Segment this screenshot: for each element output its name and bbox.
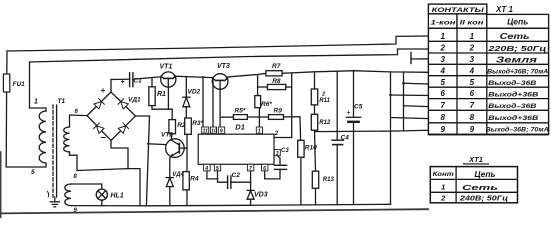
svg-text:R13: R13 [323,177,335,183]
wire bridge plus output up to C1 rail [110,80,112,93]
ground (screen of T1) [50,197,59,207]
resistor R3 [185,118,192,134]
wire pin 7 column [250,171,252,190]
wire rail to C5 [353,71,355,118]
svg-text:4: 4 [439,66,445,75]
wire R1 bottom to base node [152,106,172,110]
connector table XT1 (two-column contact table) [428,4,548,134]
wire pin 8 horizontal run [77,169,128,171]
svg-text:3: 3 [440,55,445,64]
svg-text:FU1: FU1 [13,81,26,88]
wire R7/R8 left vertical [257,75,259,96]
svg-text:Конт: Конт [433,172,455,178]
table subheader cells [428,14,457,28]
wire pin 5 lead to C2 [218,171,228,182]
resistor R2 [169,120,176,134]
wire R5/R9 row left end (tee on VT3 base column) [220,116,233,118]
svg-text:R6*: R6* [261,101,272,108]
wire IC pin 2 lead [274,137,292,139]
bridge diode (top-left arm) [94,99,104,109]
labels group [13,63,363,214]
svg-text:Цепь: Цепь [474,169,495,179]
wire C2 to pin 7 column [231,181,251,183]
svg-text:C3: C3 [281,148,289,154]
pin 9 box [218,127,224,134]
resistor R1 [149,87,155,106]
table data grid [428,28,548,134]
svg-text:2: 2 [469,44,475,53]
wire R9 to R10 top [284,117,301,141]
bridge diode (top-right arm) [118,99,128,109]
wire rail to C4 [336,71,338,140]
svg-text:R7: R7 [272,63,281,70]
svg-text:R1: R1 [157,91,166,98]
wire VT2 emitter down to VD4 [170,156,172,178]
capacitor C5 (electrolytic) [346,117,360,122]
wire R7/R8 right vertical down to IC pin 2 [291,73,293,138]
svg-text:3: 3 [470,55,475,64]
resistor R4 [183,172,189,190]
fuse FU1 [3,74,9,92]
svg-text:C4: C4 [341,135,350,142]
svg-text:Выход+36В: Выход+36В [488,114,538,122]
node junction on bus row 6 [389,94,392,97]
wire R1 top to rail [151,78,153,86]
svg-text:VT3: VT3 [217,63,230,70]
wire stub toward VT2 [148,143,167,146]
svg-text:5: 5 [440,78,445,87]
wire R10 bottom to rail [300,157,302,205]
wire line2 drop to T1 pin 1 [30,62,47,111]
pin 1 box [256,127,262,134]
wire pin 4 lead [207,171,218,179]
svg-text:VД4: VД4 [172,172,184,178]
svg-text:КОНТАКТЫ: КОНТАКТЫ [432,7,484,14]
pin 11 box [202,127,209,134]
svg-text:T1: T1 [58,98,66,105]
wire R13 bottom to rail [315,188,317,204]
svg-text:2: 2 [440,194,446,203]
wire R4 bottom to rail [186,190,188,206]
wire pin 6 lead to C3 [265,169,280,179]
pin 6 box [262,164,268,171]
wire T1 pin 6 to bridge left vertex [70,115,88,127]
wire rail to R11 [314,72,316,89]
svg-text:R5*: R5* [235,108,246,115]
wire R11 to R12 [314,105,316,114]
transformer T1 secondary winding I (pins 6-8) [64,127,70,152]
capacitor C2 [228,176,231,188]
lamp HL1 [96,189,107,200]
svg-text:240В; 50Гц: 240В; 50Гц [459,195,509,202]
svg-text:Выход–36В: Выход–36В [488,102,536,110]
capacitor C3 [274,165,286,169]
svg-text:D1: D1 [235,123,245,132]
svg-text:220В; 50Гц: 220В; 50Гц [487,44,547,53]
svg-text:II кон: II кон [460,20,485,26]
transistor VT1 [161,72,176,87]
resistor R7 (in series on rail) [266,71,282,76]
svg-text:5: 5 [216,166,219,172]
wire output bus vertical (rows 6,8) [390,72,392,204]
svg-text:1: 1 [34,99,38,106]
svg-text:Сеть: Сеть [500,31,530,41]
svg-text:9: 9 [220,128,223,134]
svg-text:1-кон: 1-кон [431,21,457,27]
bridge diode (bottom-left arm) [94,123,104,133]
node junction on comb row 5 [402,82,405,85]
svg-text:VD3: VD3 [254,191,268,198]
wire fuse-to-pin5 segment [6,92,46,167]
svg-text:Земля: Земля [496,55,537,64]
wire bridge right vertex down to bottom rail left end [136,116,150,206]
svg-text:2: 2 [321,92,325,98]
wire VT1 emitter rail to VT3 [176,76,212,77]
wire mains line 2 (inner top rail to table row 2) [30,49,429,62]
table header box КОНТАКТЫ [428,4,486,14]
resistor R12 [311,114,317,130]
wire stub table row 8 [391,118,429,119]
transformer T1 core solid line [56,105,58,197]
diode VD3 [247,190,254,205]
page border bottom [0,209,428,213]
transformer T1 primary winding (pins 1-5) [39,111,46,163]
diode VD4 [166,178,173,206]
wire stub table row 5 [404,82,429,85]
svg-text:8: 8 [470,113,475,122]
resistor R11 [311,89,317,105]
wire R5 to R9 [247,116,268,118]
svg-text:1: 1 [470,32,475,41]
svg-text:C5: C5 [354,103,363,110]
diode VD2 [183,77,190,119]
svg-text:3: 3 [276,151,279,157]
resistor R8 [267,84,285,89]
svg-text:4: 4 [469,66,475,75]
wire pin 10 drop from VT3 collector node [212,78,214,127]
pin 4 box [204,164,211,171]
underline of XT1 title [463,163,489,165]
svg-text:10: 10 [211,128,217,134]
svg-text:VT2: VT2 [161,132,173,139]
wire mains line 1 (top rail to table row 1) [7,36,428,51]
svg-text:R2: R2 [177,122,186,129]
svg-text:1: 1 [258,128,261,134]
svg-text:Выход–36В; 70мА: Выход–36В; 70мА [486,128,549,134]
transistor VT2 [166,139,187,158]
resistor R13 [312,171,318,188]
svg-text:9: 9 [470,125,475,134]
wire stub table row 7 [404,105,429,108]
svg-text:Выход+36В; 70мА: Выход+36В; 70мА [487,69,548,75]
table circuit names column [486,31,549,134]
svg-text:+: + [347,110,351,117]
wire R12 bottom to R13 [315,130,316,171]
svg-text:R9: R9 [274,108,283,115]
wire R8 right lead [286,86,292,88]
svg-text:11: 11 [203,128,208,134]
wire R6 bottom to pin 1 [258,108,260,127]
svg-text:Сеть: Сеть [462,183,499,192]
svg-text:R12: R12 [319,120,331,126]
svg-text:Выход+36В: Выход+36В [488,90,538,98]
svg-text:1: 1 [440,32,445,41]
table contact numbers column I [439,32,445,134]
screen pin mark [48,192,49,197]
svg-text:R10: R10 [305,144,317,151]
wire VT3 emitter rail to R7 [228,73,266,77]
svg-text:8: 8 [74,174,78,180]
wire bridge minus output jog to bottom rail [111,141,140,206]
svg-text:5: 5 [470,78,475,87]
pin 5 box [214,164,220,171]
svg-text:5: 5 [31,169,35,176]
svg-text:VD2: VD2 [188,89,201,96]
svg-text:XT1: XT1 [468,155,483,164]
IC D1 body [198,134,274,164]
svg-text:+: + [101,86,106,95]
wire bottom rail [146,204,390,206]
svg-text:R11: R11 [319,98,330,104]
resistor R5 [233,115,247,120]
svg-text:C2: C2 [232,172,241,179]
svg-text:6: 6 [440,89,445,98]
pin 3 box [274,150,280,156]
wire rail R7 to output comb [282,71,428,74]
svg-text:6: 6 [470,89,475,98]
pin 7 box [247,164,253,171]
transistor VT3 [212,74,228,90]
svg-text:C1: C1 [133,78,142,85]
wire rectified rail C1 to VT1 [111,78,130,80]
wire C4 bottom to rail [336,145,338,205]
wire lamp winding top to HL1 [71,184,102,189]
svg-text:HL1: HL1 [111,193,124,200]
svg-text:2: 2 [439,44,445,53]
transformer T1 secondary winding II (lamp winding, pin 9) [65,184,71,206]
resistor R6 [255,96,261,108]
svg-text:R3*: R3* [192,120,203,127]
bridge rectifier VD1 diamond [87,92,136,141]
svg-text:–: – [101,132,107,143]
wire R3 bottom to R4 (VT2 base column) [186,134,188,171]
svg-text:2: 2 [274,131,279,137]
svg-text:R4: R4 [190,175,199,182]
svg-text:+: + [121,79,125,86]
svg-text:XT 1: XT 1 [495,5,513,14]
svg-text:8: 8 [440,113,445,122]
wire VT3 base down to pin 9 [219,89,221,127]
pin 10 box [210,127,216,134]
svg-text:7: 7 [470,101,475,110]
wire pin 11 column from rail [202,77,204,127]
svg-text:7: 7 [440,101,445,110]
resistor R9 [269,115,284,120]
svg-text:6: 6 [263,166,266,172]
svg-text:VT1: VT1 [160,63,173,70]
wire stub table row 6 [391,94,429,97]
wire C3 top to pin 3 [278,156,281,166]
transformer T1 core/screen dashed line [52,105,54,197]
capacitor C1 [130,73,133,87]
wire R2 bottom to VT2 collector [171,134,172,140]
wire T1 pin 8 lead [70,152,78,171]
wire C5 bottom to rail [353,123,355,205]
page border left edge [0,152,2,218]
wire R8 left lead [258,86,268,88]
resistor R10 [298,140,304,157]
wire R12/R13 junction to table row 9 [316,130,429,131]
wire lamp winding bottom to HL1 and on to bottom rail [71,205,146,207]
svg-text:9: 9 [440,125,445,134]
wire R2 top stub [171,109,173,119]
svg-text:VД1: VД1 [128,97,141,104]
wire comb vertical (rows 5,7,9) [403,72,405,131]
table cell Цепь header [487,14,549,28]
svg-text:1: 1 [441,182,445,191]
ground stub to table row 3 (Земля) [411,53,428,64]
svg-text:Выход–36В: Выход–36В [488,79,536,87]
svg-text:6: 6 [75,109,79,115]
svg-text:4: 4 [204,166,208,172]
connector table XT1 (alternate small table) [430,167,517,203]
wire left vertical from line1 corner down through fuse to T1 pin 5 [6,51,8,74]
capacitor C4 [332,140,344,144]
svg-text:R8: R8 [272,78,281,85]
table contact numbers column II [469,32,475,134]
bridge diode (bottom-right arm) [118,123,128,133]
wire VT1 base down [167,87,169,109]
svg-text:Цепь: Цепь [507,17,528,27]
